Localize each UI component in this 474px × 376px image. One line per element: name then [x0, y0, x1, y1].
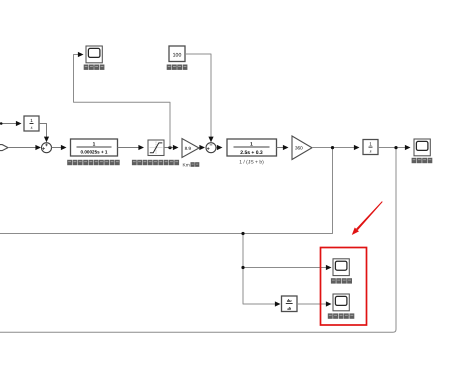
- svg-text:Km: Km: [183, 163, 190, 169]
- svg-text:100: 100: [173, 52, 182, 58]
- svg-text:8.9: 8.9: [185, 146, 192, 151]
- svg-text:0.00025s + 1: 0.00025s + 1: [81, 150, 108, 155]
- svg-text:s: s: [31, 126, 33, 131]
- svg-text:1: 1: [30, 118, 33, 123]
- svg-text:360: 360: [295, 146, 303, 151]
- svg-text:du: du: [287, 298, 292, 303]
- svg-text:2.5s + 0.3: 2.5s + 0.3: [240, 150, 263, 156]
- svg-text:1 / (JS + b): 1 / (JS + b): [239, 159, 264, 165]
- svg-text:1: 1: [369, 142, 372, 147]
- svg-text:1: 1: [250, 141, 253, 147]
- svg-text:s: s: [370, 150, 372, 155]
- svg-text:1: 1: [93, 141, 96, 147]
